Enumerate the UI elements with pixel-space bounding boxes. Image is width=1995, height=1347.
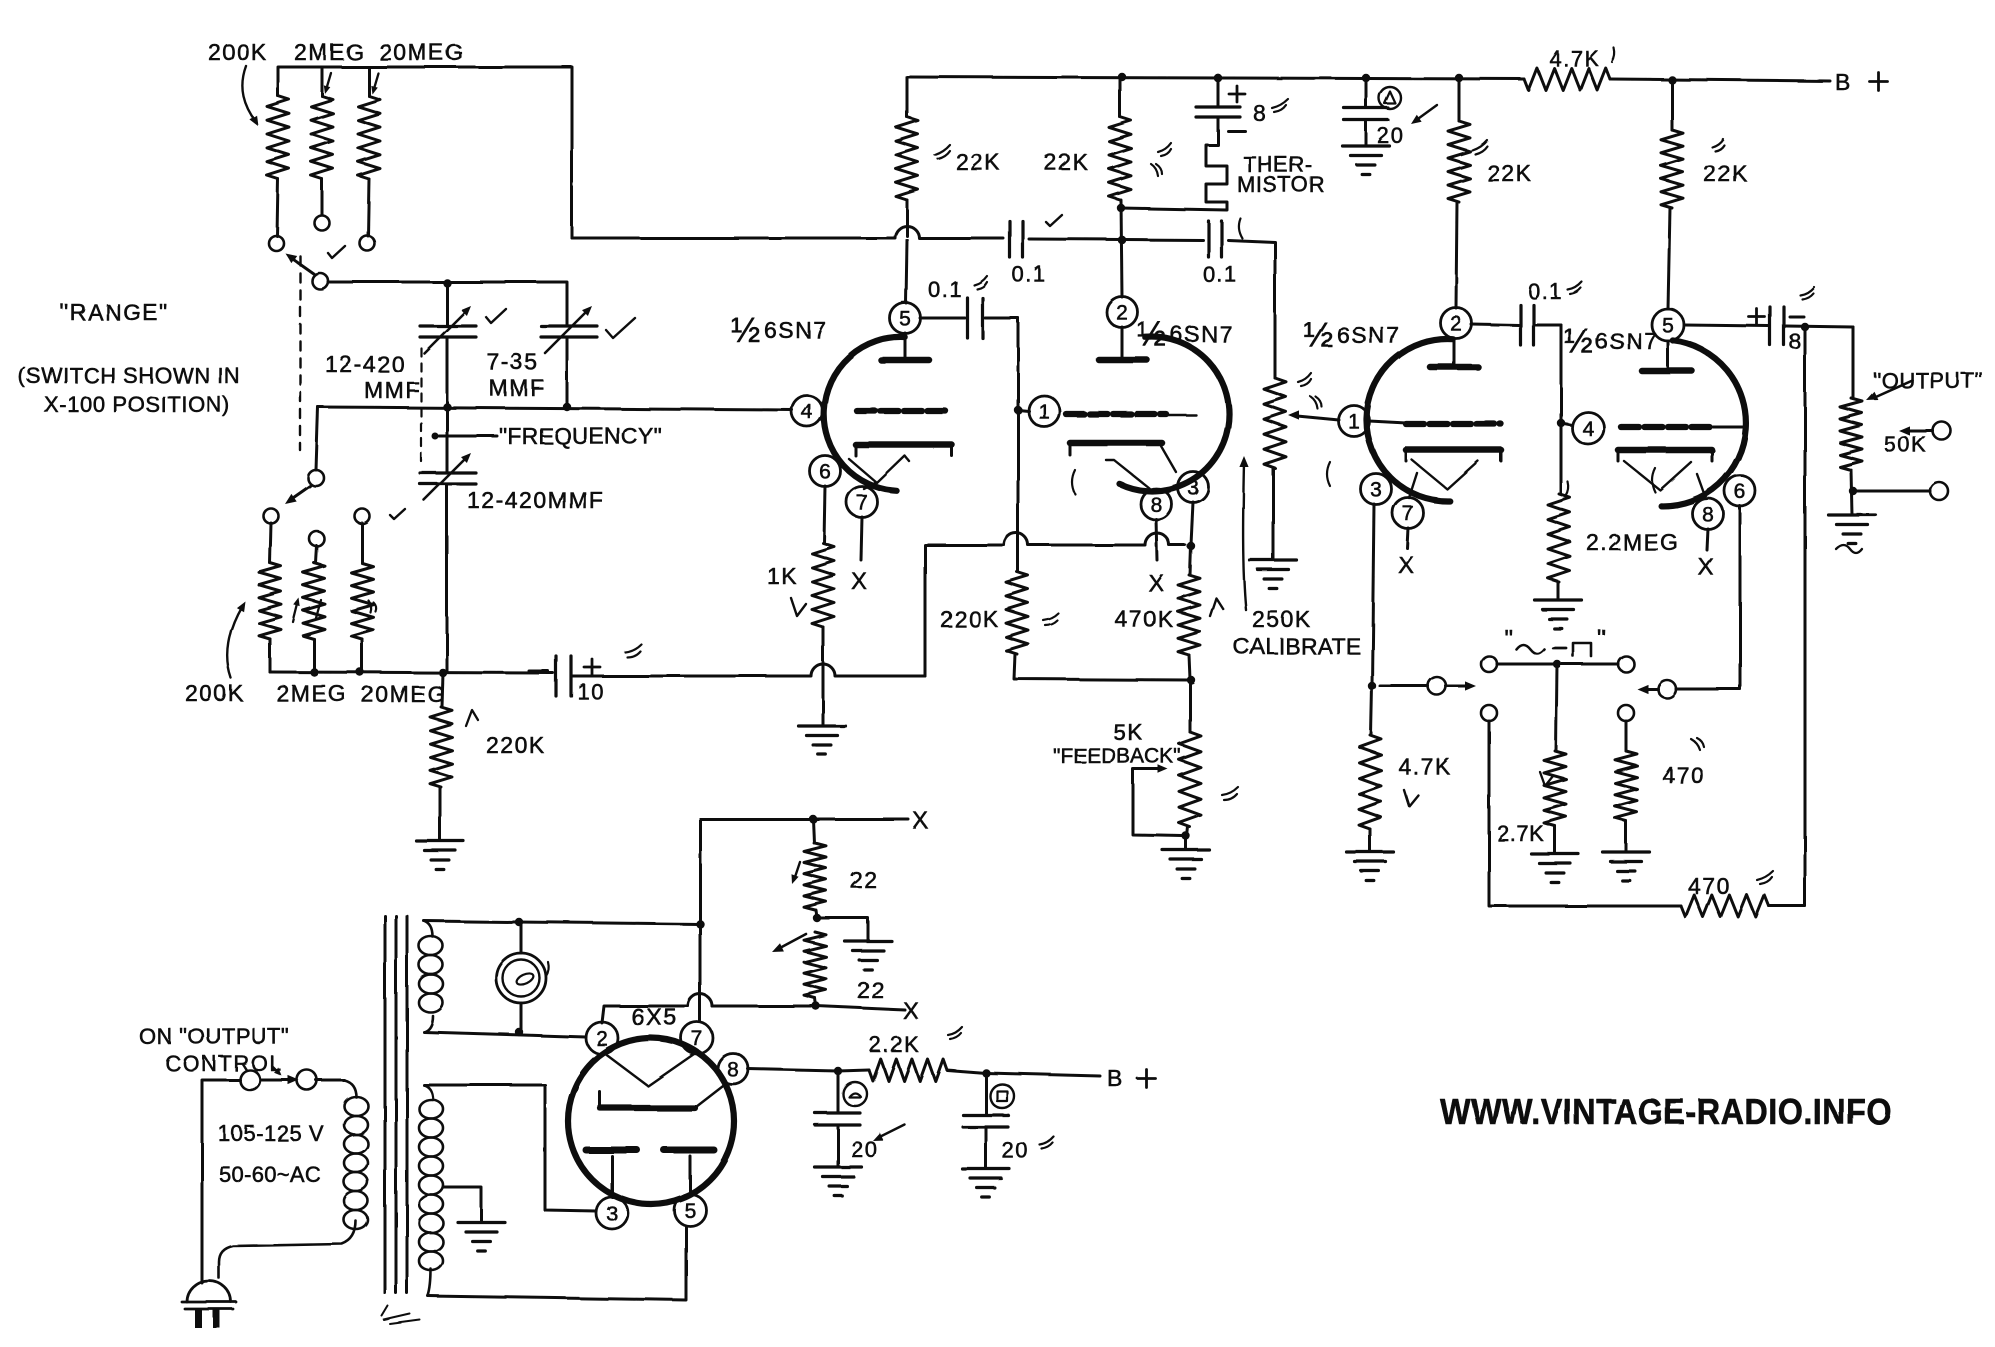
svg-text:105-125 V: 105-125 V [218,1121,324,1146]
svg-text:8: 8 [727,1058,739,1081]
svg-text:B: B [1107,1065,1124,1091]
svg-text:0.1: 0.1 [1011,261,1046,286]
svg-text:5: 5 [1662,314,1674,337]
svg-text:5: 5 [899,307,911,330]
svg-text:200K: 200K [185,680,245,706]
svg-text:6: 6 [1734,480,1746,503]
svg-text:3: 3 [1370,478,1382,501]
svg-text:0.1: 0.1 [1528,279,1563,304]
svg-text:½: ½ [731,311,760,350]
svg-text:3: 3 [1187,476,1199,499]
svg-text:5: 5 [684,1199,696,1222]
svg-text:8: 8 [1702,503,1714,526]
svg-text:X: X [1398,552,1416,579]
svg-text:0.1: 0.1 [1203,262,1238,287]
svg-text:4.7K: 4.7K [1549,46,1600,71]
svg-text:"FREQUENCY": "FREQUENCY" [499,423,662,449]
svg-text:5K: 5K [1113,719,1144,745]
svg-text:6: 6 [819,460,831,483]
svg-text:470: 470 [1688,873,1731,899]
svg-text:20: 20 [1002,1138,1029,1163]
svg-text:2.7K: 2.7K [1497,821,1544,846]
svg-text:ON "OUTPUT": ON "OUTPUT" [139,1024,290,1049]
svg-text:22: 22 [850,867,879,893]
svg-text:6X5: 6X5 [631,1004,678,1031]
svg-text:50-60~AC: 50-60~AC [219,1162,321,1187]
svg-text:1: 1 [1038,400,1050,423]
svg-text:4.7K: 4.7K [1398,753,1451,779]
svg-text:12-420MMF: 12-420MMF [467,487,604,513]
svg-text:MMF: MMF [489,375,546,401]
svg-text:MISTOR: MISTOR [1237,172,1325,197]
svg-text:22: 22 [857,977,886,1003]
svg-text:X: X [1698,554,1716,581]
svg-text:6SN7: 6SN7 [764,317,828,343]
svg-text:50K: 50K [1884,432,1928,457]
svg-text:CONTROL: CONTROL [165,1051,283,1076]
svg-text:6SN7: 6SN7 [1337,322,1401,348]
svg-text:"FEEDBACK": "FEEDBACK" [1053,745,1181,768]
svg-text:WWW.VINTAGE-RADIO.INFO: WWW.VINTAGE-RADIO.INFO [1440,1091,1892,1132]
svg-text:"RANGE": "RANGE" [60,299,169,325]
svg-text:": " [1597,625,1606,652]
svg-text:2: 2 [1450,312,1462,335]
svg-text:200K: 200K [208,39,268,65]
svg-text:22K: 22K [1487,160,1532,186]
svg-text:6SN7: 6SN7 [1170,321,1234,347]
svg-text:2MEG: 2MEG [276,680,347,706]
svg-text:470: 470 [1662,762,1705,788]
svg-text:(SWITCH SHOWN IN: (SWITCH SHOWN IN [18,363,240,388]
svg-text:20: 20 [1377,123,1404,148]
svg-text:½: ½ [1304,316,1333,355]
svg-text:X: X [1148,570,1166,597]
svg-text:CALIBRATE: CALIBRATE [1233,633,1361,659]
svg-text:250K: 250K [1252,606,1312,632]
svg-text:22K: 22K [956,149,1001,175]
svg-text:12-420: 12-420 [325,351,406,377]
svg-text:7: 7 [1402,502,1414,525]
svg-text:2.2MEG: 2.2MEG [1586,529,1679,555]
svg-text:8: 8 [1789,329,1803,354]
svg-text:7-35: 7-35 [487,349,539,375]
svg-text:7: 7 [691,1027,703,1050]
svg-text:8: 8 [1150,493,1162,516]
svg-text:3: 3 [606,1202,618,1225]
svg-text:½: ½ [1564,322,1593,361]
svg-text:8: 8 [1253,100,1267,126]
svg-text:1: 1 [1348,410,1360,433]
svg-text:6SN7: 6SN7 [1595,328,1659,354]
svg-text:470K: 470K [1115,606,1175,632]
svg-text:220K: 220K [940,606,1000,632]
svg-text:20MEG: 20MEG [379,39,464,65]
svg-text:4: 4 [801,400,813,423]
svg-text:X-100 POSITION): X-100 POSITION) [44,392,230,417]
svg-text:B: B [1835,69,1852,95]
svg-text:1K: 1K [767,563,798,589]
svg-text:X: X [912,807,930,834]
svg-text:X: X [903,998,921,1025]
svg-text:4: 4 [1582,417,1594,440]
svg-text:2.2K: 2.2K [869,1032,920,1057]
svg-text:": " [1504,625,1513,652]
svg-text:½: ½ [1137,315,1166,354]
svg-text:7: 7 [856,491,868,514]
svg-text:2: 2 [596,1027,608,1050]
svg-text:220K: 220K [486,732,546,758]
svg-text:22K: 22K [1044,149,1089,175]
svg-text:22K: 22K [1703,160,1748,186]
svg-text:2MEG: 2MEG [294,39,365,65]
svg-text:10: 10 [577,679,604,704]
svg-text:0.1: 0.1 [928,277,963,302]
svg-text:20MEG: 20MEG [361,681,446,707]
svg-text:2: 2 [1116,301,1128,324]
svg-text:MMF: MMF [364,377,421,403]
svg-text:X: X [851,568,869,595]
